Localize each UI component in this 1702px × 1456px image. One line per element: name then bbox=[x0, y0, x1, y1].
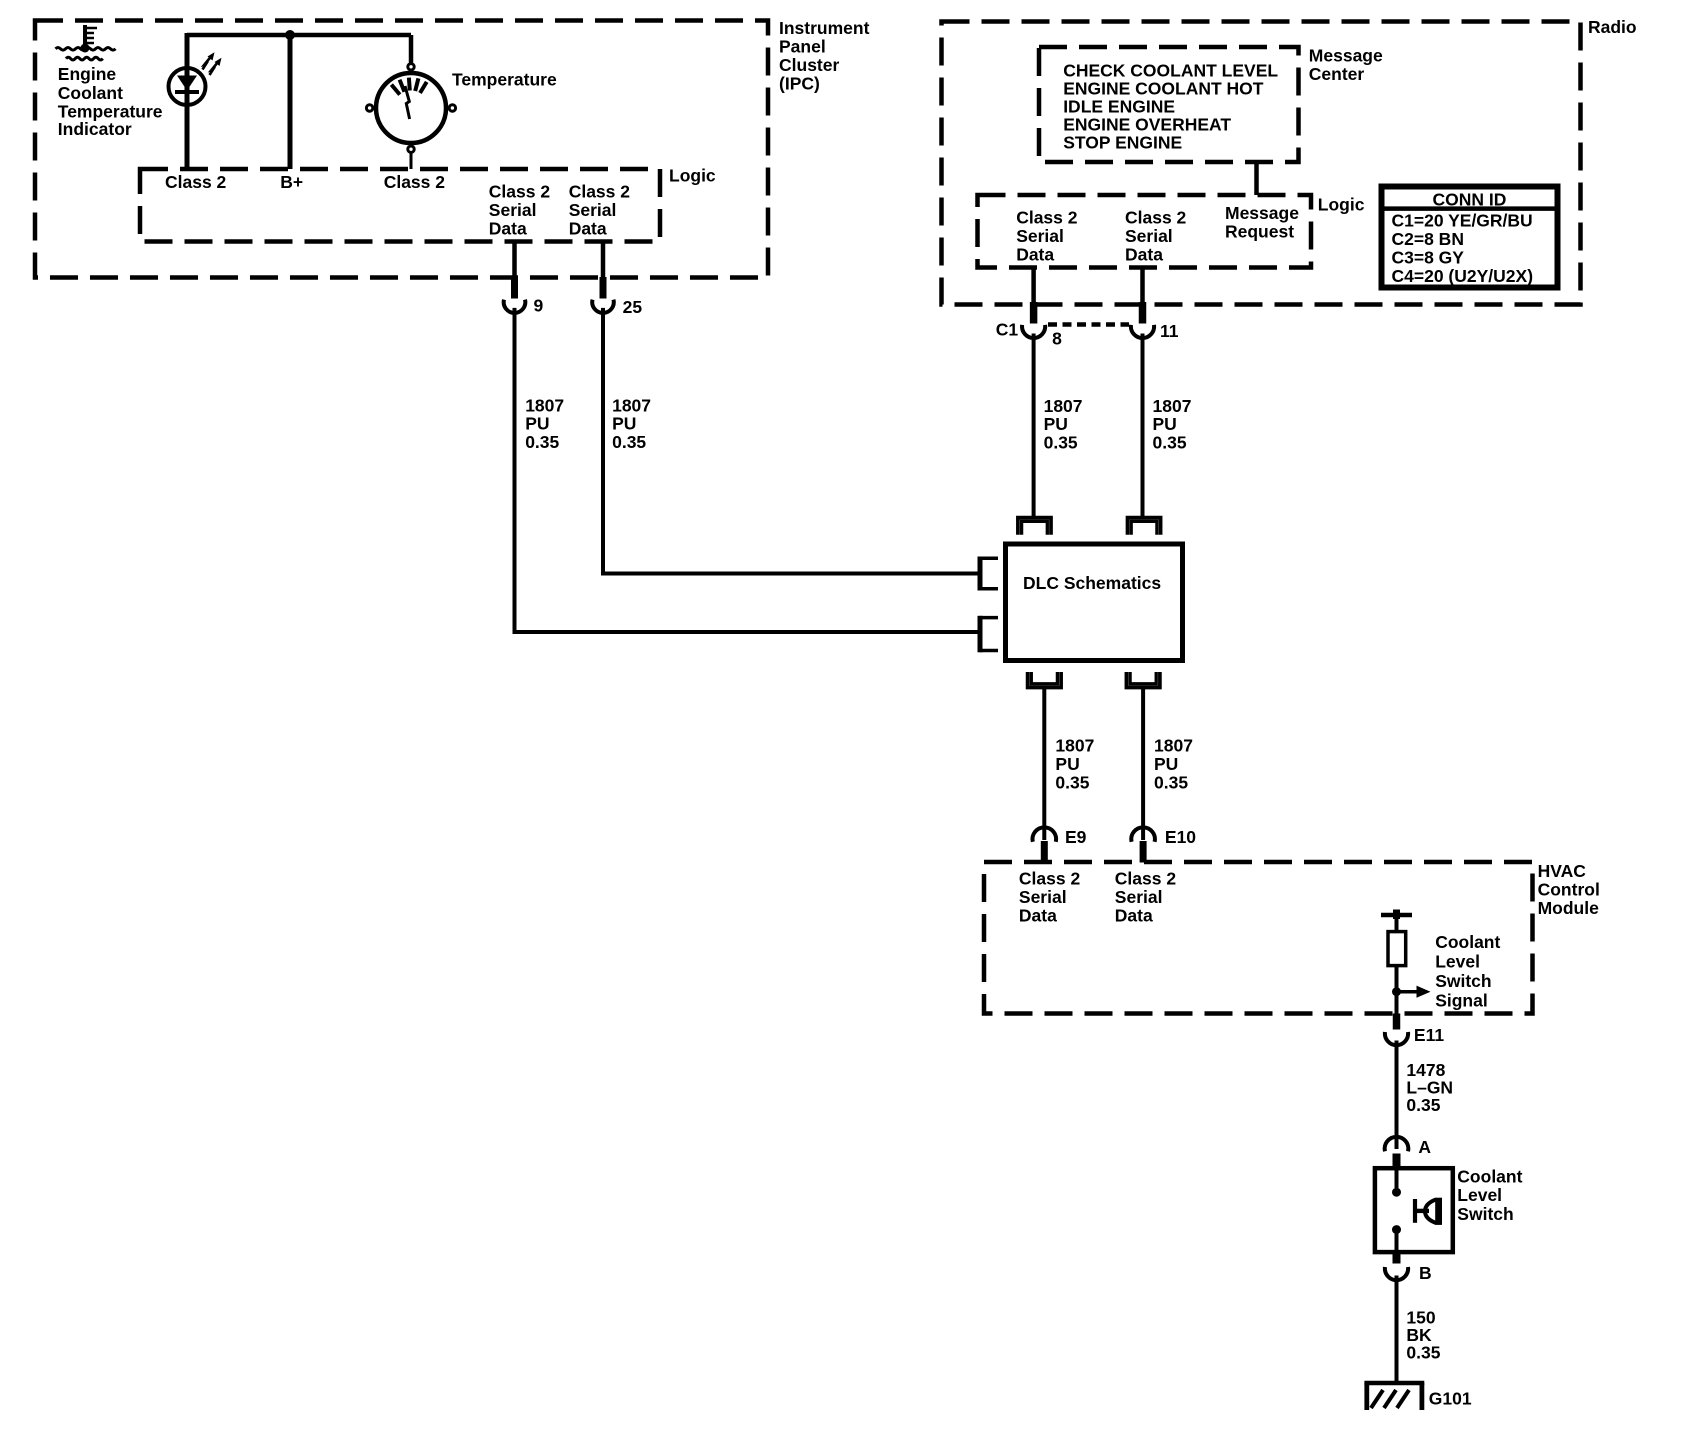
svg-text:B: B bbox=[1419, 1263, 1432, 1283]
svg-text:Class 2: Class 2 bbox=[569, 182, 631, 202]
svg-text:1807: 1807 bbox=[1044, 396, 1083, 416]
svg-text:Logic: Logic bbox=[1318, 194, 1365, 214]
svg-text:Signal: Signal bbox=[1435, 991, 1488, 1011]
svg-text:Serial: Serial bbox=[1016, 226, 1064, 246]
svg-text:PU: PU bbox=[1154, 754, 1178, 774]
svg-text:8: 8 bbox=[1052, 328, 1062, 348]
svg-text:0.35: 0.35 bbox=[1044, 433, 1078, 453]
svg-text:Serial: Serial bbox=[569, 200, 617, 220]
svg-text:Radio: Radio bbox=[1588, 17, 1637, 37]
svg-text:11: 11 bbox=[1160, 321, 1179, 341]
svg-text:1807: 1807 bbox=[525, 395, 564, 415]
svg-text:25: 25 bbox=[623, 297, 643, 317]
svg-text:A: A bbox=[1418, 1137, 1431, 1157]
svg-text:0.35: 0.35 bbox=[1406, 1095, 1440, 1115]
svg-text:0.35: 0.35 bbox=[1406, 1343, 1440, 1363]
svg-text:Indicator: Indicator bbox=[58, 119, 132, 139]
svg-text:C3=8 GY: C3=8 GY bbox=[1392, 248, 1465, 268]
svg-text:Data: Data bbox=[1019, 906, 1057, 926]
svg-text:B+: B+ bbox=[280, 172, 303, 192]
svg-text:C4=20 (U2Y/U2X): C4=20 (U2Y/U2X) bbox=[1392, 266, 1534, 286]
svg-text:C1=20 YE/GR/BU: C1=20 YE/GR/BU bbox=[1392, 211, 1533, 231]
svg-text:G101: G101 bbox=[1429, 1389, 1472, 1409]
svg-text:0.35: 0.35 bbox=[1055, 773, 1089, 793]
svg-text:Coolant: Coolant bbox=[1457, 1167, 1522, 1187]
svg-text:DLC Schematics: DLC Schematics bbox=[1023, 573, 1161, 593]
svg-text:0.35: 0.35 bbox=[1153, 433, 1187, 453]
svg-text:Cluster: Cluster bbox=[779, 55, 839, 75]
svg-text:9: 9 bbox=[534, 296, 544, 316]
svg-text:Control: Control bbox=[1538, 880, 1600, 900]
svg-text:CONN ID: CONN ID bbox=[1433, 190, 1507, 210]
svg-text:Data: Data bbox=[1016, 245, 1054, 265]
svg-text:Message: Message bbox=[1225, 203, 1299, 223]
svg-text:Switch: Switch bbox=[1457, 1204, 1513, 1224]
svg-text:Data: Data bbox=[569, 219, 607, 239]
svg-text:E9: E9 bbox=[1065, 827, 1087, 847]
svg-text:Message: Message bbox=[1309, 45, 1383, 65]
svg-text:1807: 1807 bbox=[1055, 736, 1094, 756]
svg-text:E11: E11 bbox=[1414, 1025, 1444, 1045]
svg-text:Level: Level bbox=[1435, 952, 1480, 972]
svg-text:Class 2: Class 2 bbox=[489, 182, 551, 202]
svg-text:PU: PU bbox=[612, 413, 636, 433]
svg-text:0.35: 0.35 bbox=[612, 432, 646, 452]
svg-text:(IPC): (IPC) bbox=[779, 74, 820, 94]
svg-text:Class 2: Class 2 bbox=[1125, 208, 1187, 228]
svg-text:Data: Data bbox=[1125, 245, 1163, 265]
svg-text:Class 2: Class 2 bbox=[1016, 208, 1078, 228]
svg-text:STOP ENGINE: STOP ENGINE bbox=[1063, 132, 1182, 152]
svg-text:PU: PU bbox=[1055, 754, 1079, 774]
svg-text:PU: PU bbox=[525, 413, 549, 433]
svg-text:Level: Level bbox=[1457, 1185, 1502, 1205]
svg-text:Class 2: Class 2 bbox=[1115, 869, 1177, 889]
svg-text:Class 2: Class 2 bbox=[1019, 869, 1081, 889]
svg-text:0.35: 0.35 bbox=[1154, 773, 1188, 793]
svg-text:Class 2: Class 2 bbox=[165, 172, 227, 192]
svg-text:Request: Request bbox=[1225, 222, 1294, 242]
svg-text:Coolant: Coolant bbox=[58, 83, 123, 103]
svg-text:Serial: Serial bbox=[1019, 887, 1067, 907]
svg-text:Logic: Logic bbox=[669, 165, 716, 185]
svg-text:Data: Data bbox=[489, 219, 527, 239]
svg-text:Serial: Serial bbox=[1115, 887, 1163, 907]
svg-text:Engine: Engine bbox=[58, 64, 117, 84]
svg-text:C2=8 BN: C2=8 BN bbox=[1392, 229, 1464, 249]
svg-text:C1: C1 bbox=[996, 320, 1019, 340]
svg-text:Center: Center bbox=[1309, 64, 1365, 84]
svg-text:1807: 1807 bbox=[1153, 396, 1192, 416]
svg-text:E10: E10 bbox=[1165, 827, 1196, 847]
svg-text:HVAC: HVAC bbox=[1538, 861, 1587, 881]
svg-text:Panel: Panel bbox=[779, 36, 826, 56]
svg-text:Instrument: Instrument bbox=[779, 18, 870, 38]
svg-text:1807: 1807 bbox=[1154, 736, 1193, 756]
svg-text:Class 2: Class 2 bbox=[384, 172, 446, 192]
svg-text:Temperature: Temperature bbox=[452, 70, 557, 90]
svg-text:Switch: Switch bbox=[1435, 971, 1491, 991]
svg-text:Serial: Serial bbox=[489, 200, 537, 220]
svg-text:PU: PU bbox=[1044, 414, 1068, 434]
svg-text:Coolant: Coolant bbox=[1435, 932, 1500, 952]
svg-text:PU: PU bbox=[1153, 414, 1177, 434]
svg-text:Data: Data bbox=[1115, 906, 1153, 926]
svg-text:0.35: 0.35 bbox=[525, 432, 559, 452]
svg-text:1807: 1807 bbox=[612, 395, 651, 415]
svg-text:Module: Module bbox=[1538, 898, 1600, 918]
svg-text:Serial: Serial bbox=[1125, 226, 1173, 246]
